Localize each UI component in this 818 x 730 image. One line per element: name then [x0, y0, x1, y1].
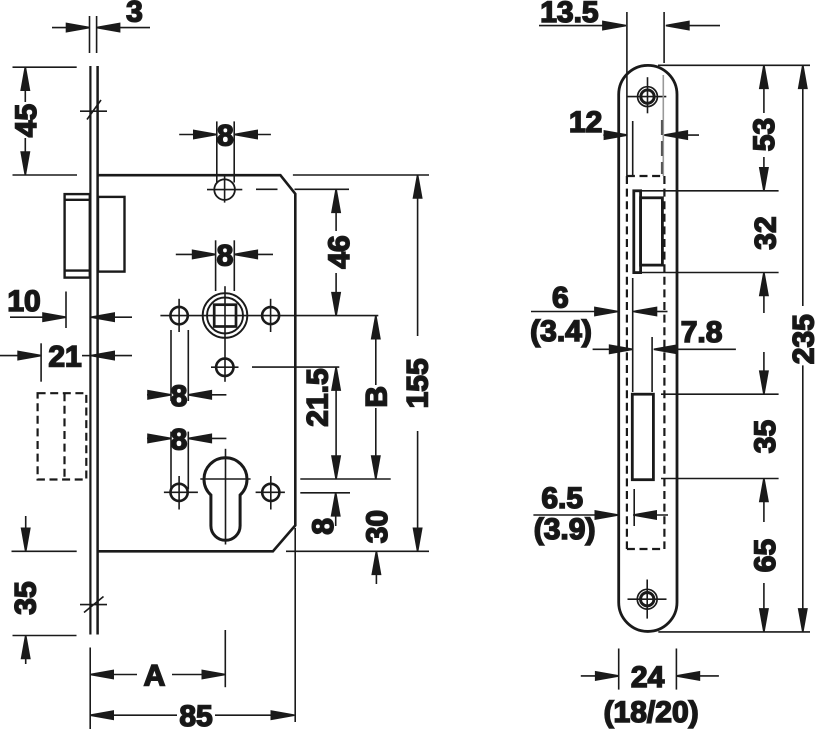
- latch cutout right hidden edge (dashed): [661, 120, 663, 174]
- dimension 8 (lower hole dia): [147, 432, 226, 490]
- svg-text:B: B: [360, 386, 393, 408]
- svg-text:24: 24: [631, 661, 665, 694]
- svg-text:10: 10: [7, 285, 40, 318]
- faceplate side view (strip): [90, 66, 97, 635]
- dimension 21.5: [332, 367, 340, 479]
- dimension 12: [603, 131, 699, 139]
- left handle screw hole: [170, 307, 187, 324]
- dimension 30: [372, 551, 380, 584]
- deadbolt left edge extension up: [632, 278, 634, 392]
- faceplate break mark top: [80, 100, 107, 120]
- dimension 7.8: [593, 345, 736, 353]
- lower left hole: [164, 476, 198, 510]
- faceplate front outline: [619, 65, 677, 631]
- svg-text:8: 8: [171, 423, 188, 456]
- dimension 53: [760, 65, 768, 191]
- svg-text:53: 53: [748, 118, 781, 151]
- svg-text:8: 8: [171, 380, 188, 413]
- dimension 65: [760, 479, 768, 632]
- dimension 85: [90, 528, 295, 722]
- svg-text:45: 45: [10, 104, 43, 137]
- svg-text:6: 6: [552, 282, 569, 315]
- extension lines right stack: [658, 64, 810, 66]
- extension line body bottom right: [286, 550, 429, 552]
- deadbolt right edge extension up: [651, 337, 653, 392]
- dimension 8 (upper handle hole dia): [147, 330, 226, 401]
- svg-text:46: 46: [323, 235, 356, 268]
- extension line pocket left top: [626, 12, 628, 176]
- dimension 3 (faceplate thickness): [52, 16, 150, 53]
- extension line top screw center (46 top): [256, 188, 278, 190]
- svg-text:235: 235: [787, 314, 818, 364]
- svg-text:6.5: 6.5: [541, 482, 583, 515]
- lock case dashed pocket (hidden): [627, 176, 665, 549]
- svg-text:21: 21: [48, 341, 81, 374]
- right handle screw hole: [262, 307, 279, 324]
- dimension 21: [0, 343, 132, 381]
- extension line pocket right top: [663, 12, 665, 63]
- hole below spindle: [211, 359, 239, 376]
- dimension 8 (spindle square): [176, 240, 273, 291]
- svg-text:12: 12: [569, 106, 602, 139]
- deadbolt dashed pocket: [38, 393, 87, 479]
- extension lines 35 left bottom: [12, 550, 77, 552]
- svg-text:7.8: 7.8: [681, 316, 723, 349]
- dimension 13.5: [539, 22, 720, 30]
- svg-text:65: 65: [749, 539, 782, 572]
- extension line below-spindle hole: [252, 366, 339, 368]
- svg-text:85: 85: [179, 700, 212, 730]
- latch bolt (front): [641, 198, 663, 265]
- svg-text:13.5: 13.5: [540, 0, 598, 29]
- deadbolt cutout (front): [632, 394, 653, 480]
- dimension A: [90, 630, 225, 729]
- svg-text:A: A: [144, 660, 166, 693]
- svg-text:8: 8: [217, 120, 234, 153]
- svg-text:3: 3: [126, 0, 143, 29]
- svg-text:155: 155: [402, 358, 435, 408]
- extension line lower holes center: [300, 492, 350, 494]
- svg-text:8: 8: [217, 239, 234, 272]
- spindle follower hub: [160, 286, 378, 382]
- lock case outline: [98, 175, 295, 551]
- dimension B: [372, 316, 380, 479]
- dimension 8 (top screw hole): [179, 121, 271, 182]
- dimension 24 (18/20): [581, 649, 719, 690]
- dimension 45: [13, 67, 78, 175]
- dimension 6.5 (3.9): [533, 511, 668, 519]
- svg-text:8: 8: [307, 518, 340, 535]
- dimension 6 (3.4): [531, 307, 668, 315]
- svg-text:30: 30: [361, 510, 394, 543]
- extension line euro cylinder center: [300, 478, 390, 480]
- svg-text:(3.9): (3.9): [534, 513, 596, 546]
- svg-text:(18/20): (18/20): [604, 696, 699, 729]
- latch bolt body (inside case): [98, 197, 125, 272]
- top screw hole front: [627, 77, 666, 113]
- bottom screw hole front: [628, 580, 667, 619]
- dimension 35 (right): [760, 352, 768, 394]
- extension line body top (155 top): [293, 174, 429, 176]
- deadbolt left edge extension down: [633, 489, 635, 526]
- hidden edge line (gray): [662, 75, 664, 176]
- dimension 8 (cylinder to hole): [332, 493, 340, 526]
- svg-text:(3.4): (3.4): [530, 315, 592, 348]
- dimension 235: [799, 65, 807, 632]
- svg-text:35: 35: [749, 420, 782, 453]
- svg-text:35: 35: [9, 581, 42, 614]
- dimension 35 (left): [22, 516, 30, 664]
- latch cutout left extension: [632, 121, 634, 176]
- faceplate break mark bottom: [80, 597, 107, 613]
- lower right hole: [256, 476, 285, 510]
- latch bolt head (outside faceplate): [65, 194, 90, 278]
- svg-text:21.5: 21.5: [302, 368, 335, 426]
- svg-text:32: 32: [750, 216, 783, 249]
- latch face strip (front): [634, 191, 641, 273]
- dimension 155: [414, 175, 422, 551]
- dimension 46: [332, 189, 340, 315]
- euro profile cylinder hole: [200, 449, 250, 545]
- dimension 32: [760, 273, 768, 314]
- top screw hole: [207, 176, 242, 202]
- dimension 10: [10, 292, 132, 329]
